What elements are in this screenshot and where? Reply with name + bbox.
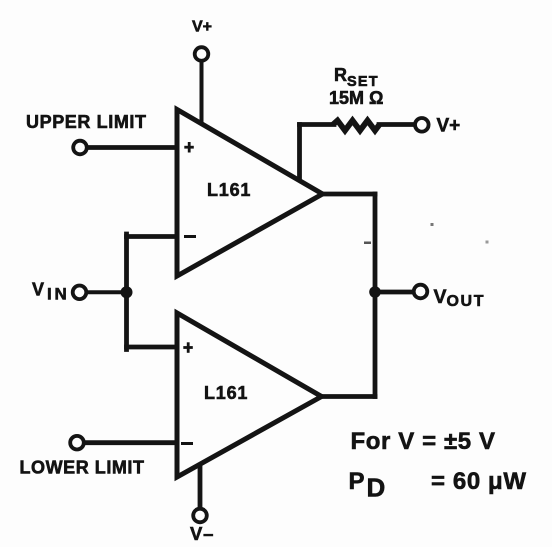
wire node A vertical bus [124,234,129,350]
wire V- supply from U2 bottom edge [198,467,203,508]
svg-text:= 60 μW: = 60 μW [431,468,527,495]
svg-text:V+: V+ [192,19,212,36]
wire RSET vertical from U1 top edge [297,125,302,183]
svg-text:L161: L161 [204,383,248,403]
terminal LOWER LIMIT [70,436,84,450]
svg-text:For V = ±5 V: For V = ±5 V [351,428,496,455]
U2 + input pin label [183,342,193,353]
terminal VIN [73,286,87,300]
scan speckle 2 [431,223,434,226]
U2 - input pin label [181,442,193,445]
node A junction dot (VIN) [121,286,133,298]
scan speckle 3 [486,241,489,244]
wire node B to VOUT terminal [375,290,413,295]
svg-text:RSET: RSET [334,65,379,90]
svg-text:V–: V– [190,523,214,544]
wire RSET right lead [379,122,414,127]
svg-text:PD: PD [349,468,386,502]
wire VIN to node A [87,290,127,294]
scan speckle 1 [364,242,371,245]
svg-text:VOUT: VOUT [434,286,486,310]
op-amp U1 (L161, upper comparator) [177,110,323,277]
wire UPPER LIMIT to U1 + input [89,145,179,150]
svg-text:15M Ω: 15M Ω [329,88,383,108]
svg-text:UPPER LIMIT: UPPER LIMIT [26,112,147,132]
wire node A to U2 + input [127,345,179,350]
terminal VOUT [414,285,428,299]
U1 - input pin label [184,235,196,238]
node B junction dot (VOUT) [369,286,381,298]
power terminal V+ (right, via RSET) [415,118,429,132]
svg-text:L161: L161 [207,180,251,200]
wire V+ supply to U1 top edge [200,61,204,125]
svg-text:V+: V+ [437,116,461,137]
wire U2 output horizontal [322,394,375,399]
resistor R_SET zigzag [333,121,380,131]
wire LOWER LIMIT to U2 - input [86,440,179,445]
op-amp U2 (L161, lower comparator) [177,313,322,477]
svg-text:LOWER LIMIT: LOWER LIMIT [20,458,145,478]
power terminal V- (bottom) [193,509,207,523]
power terminal V+ (top) [195,47,209,61]
wire output vertical bus [373,194,378,397]
terminal UPPER LIMIT [73,141,87,155]
svg-text:VIN: VIN [32,280,70,304]
wire U1 output horizontal [323,192,375,197]
U1 + input pin label [184,142,194,153]
wire RSET left lead [300,122,335,127]
wire U1 - input from node A [127,234,179,239]
